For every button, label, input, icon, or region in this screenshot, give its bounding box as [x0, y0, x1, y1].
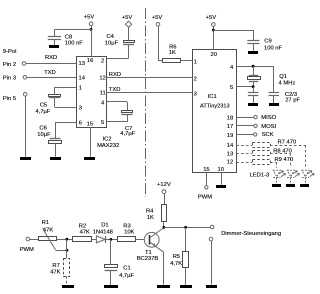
svg-text:PWM: PWM [198, 195, 212, 201]
ground R5 [180, 285, 192, 288]
wire IC2 pin1 to C5 [55, 87, 77, 89]
wire PWM to R1 [30, 239, 39, 241]
resistor R7 shunt (dashed) [64, 259, 70, 277]
svg-text:MISO: MISO [261, 115, 276, 121]
svg-text:R4: R4 [146, 208, 154, 214]
ground IC1 pin10 [216, 185, 226, 188]
wire R5 to ground [185, 268, 187, 285]
svg-text:19: 19 [227, 133, 233, 139]
wire R5 branch [185, 227, 187, 251]
svg-text:16: 16 [87, 58, 93, 64]
svg-text:20: 20 [211, 52, 217, 58]
svg-text:RXD: RXD [45, 55, 57, 61]
wire IC2 pin15 to ground [90, 128, 92, 157]
resistor R6 [163, 59, 181, 63]
wire R9 to LED1 dashed [270, 162, 277, 164]
wire Pin3 to IC2 pin14 TXD [27, 77, 77, 79]
wire R8 to LED2 dashed [270, 153, 291, 155]
ground C6 [50, 157, 61, 160]
svg-text:IC1: IC1 [208, 94, 217, 100]
wire collector node to output [163, 226, 166, 229]
svg-text:+5V: +5V [206, 15, 217, 21]
svg-text:10: 10 [218, 167, 224, 173]
node MISO [236, 117, 254, 119]
wire RXD IC2 pin12 to IC1 pin2 [106, 77, 192, 79]
node +12V [162, 190, 166, 194]
wire R1 wiper arrow [44, 230, 56, 250]
svg-text:1: 1 [194, 59, 197, 65]
svg-text:C8: C8 [65, 34, 72, 40]
svg-text:17: 17 [227, 124, 233, 130]
capacitor C5 [49, 95, 61, 97]
capacitor C6 [50, 138, 61, 140]
wire Pin5 to ground [25, 96, 27, 157]
op-amp IC2 MAX232 body [77, 57, 107, 128]
LED LED3 [302, 170, 309, 177]
capacitor C2 [253, 87, 255, 93]
svg-text:R7 470: R7 470 [278, 140, 297, 146]
svg-text:C4: C4 [107, 34, 115, 40]
svg-text:4,7µF: 4,7µF [36, 109, 51, 115]
capacitor C8 [54, 29, 56, 36]
ground R7 [62, 285, 74, 288]
ground C3 [269, 103, 279, 106]
wire IC1 pin14 dashed [236, 145, 252, 147]
capacitor C7 [122, 111, 133, 113]
svg-text:R9 470: R9 470 [275, 157, 294, 163]
wire R2 to D1 [91, 239, 96, 241]
wire divider dash-dot line [145, 8, 147, 197]
wire Dimmer output 2 to ground [211, 241, 213, 285]
resistor R4 [162, 205, 167, 222]
svg-text:11: 11 [100, 90, 106, 96]
svg-text:47K: 47K [80, 229, 90, 235]
node +5V supply 2 (diamond) [125, 21, 131, 27]
LED LED2 [287, 170, 294, 177]
node +5V supply 1 [89, 22, 93, 26]
node MOSI [236, 125, 254, 127]
node PWM at IC1 pin15 [206, 172, 208, 185]
svg-text:4,7K: 4,7K [170, 261, 182, 267]
LED LED1 [273, 170, 280, 177]
svg-text:18: 18 [227, 116, 233, 122]
wire +12V to R4 [164, 194, 166, 205]
svg-text:MAX232: MAX232 [97, 143, 119, 149]
svg-text:12: 12 [227, 159, 233, 165]
transistor T1 BC237B [144, 232, 159, 247]
svg-text:ATTiny2313: ATTiny2313 [200, 104, 230, 110]
node +5V supply 3 [156, 23, 160, 27]
wire +5V1 down to IC2 pin16 [91, 29, 93, 56]
svg-text:14: 14 [79, 76, 86, 82]
svg-text:6: 6 [79, 120, 82, 126]
svg-text:9-Pol: 9-Pol [3, 49, 17, 55]
capacitor C1 [110, 239, 112, 264]
svg-text:C6: C6 [39, 125, 46, 131]
svg-text:R1: R1 [42, 220, 49, 226]
svg-text:Dimmer-Steuereingang: Dimmer-Steuereingang [221, 231, 281, 237]
capacitor C3 [273, 66, 275, 92]
capacitor C4 [128, 26, 130, 40]
svg-text:3: 3 [194, 92, 197, 98]
wire IC1 pin5 to crystal [236, 86, 253, 88]
node Dimmer output 2 [209, 237, 213, 241]
wire Pin2 to IC2 pin13 RXD [26, 63, 77, 65]
wire +5V3 down to R6 [158, 26, 160, 60]
svg-text:+12V: +12V [157, 182, 171, 188]
crystal Q1 [249, 75, 258, 77]
svg-text:10K: 10K [124, 229, 134, 235]
svg-text:10µF: 10µF [105, 41, 119, 47]
svg-text:+5V: +5V [122, 15, 133, 21]
svg-text:C9: C9 [264, 39, 271, 45]
diode D1 [96, 236, 105, 243]
wire D1 to R3 [105, 239, 117, 241]
svg-text:Q1: Q1 [279, 74, 287, 80]
ground Dimmer output 2 [206, 285, 217, 288]
resistor R1 potentiometer [39, 237, 57, 241]
svg-text:TXD: TXD [109, 87, 121, 93]
svg-text:15: 15 [203, 167, 209, 173]
wire IC1 pin13 dashed [236, 153, 252, 155]
svg-text:13: 13 [79, 61, 85, 67]
wire emitter to ground [163, 252, 165, 284]
svg-text:IC2: IC2 [102, 137, 111, 143]
resistor R2 [73, 237, 92, 242]
svg-text:3: 3 [79, 105, 82, 111]
resistor R5 [183, 252, 189, 268]
svg-text:+5V: +5V [152, 15, 163, 21]
node +5V supply 4 [212, 23, 216, 27]
svg-text:4,7µF: 4,7µF [120, 131, 135, 137]
wire TXD IC2 pin11 to IC1 pin3 [106, 92, 192, 94]
node SCK [236, 134, 253, 136]
wire R3 to base [135, 239, 144, 241]
svg-text:LED1-3: LED1-3 [250, 173, 270, 179]
svg-text:1N4148: 1N4148 [93, 229, 113, 235]
svg-text:12: 12 [99, 76, 105, 82]
wire IC1 pin12 dashed [236, 162, 252, 164]
svg-text:Pin 3: Pin 3 [3, 75, 16, 81]
svg-text:RXD: RXD [109, 72, 121, 78]
node Dimmer output 1 [210, 225, 214, 229]
svg-text:+5V: +5V [84, 14, 95, 20]
wire IC2 pin5 [106, 121, 127, 123]
svg-text:47K: 47K [50, 270, 60, 276]
wire R1 to R2 [57, 239, 73, 241]
resistor R3 [118, 237, 136, 242]
svg-text:D1: D1 [101, 222, 108, 228]
wire +5V1 to C8 rail [91, 26, 93, 30]
svg-text:1K: 1K [169, 50, 176, 56]
wire +5V4 down to IC1 pin20 [213, 26, 215, 49]
svg-text:10µF: 10µF [37, 132, 51, 138]
svg-text:13: 13 [227, 151, 233, 157]
svg-text:1K: 1K [147, 215, 154, 221]
svg-text:SCK: SCK [262, 132, 274, 138]
resistor R9 (dashed) [253, 160, 271, 165]
svg-text:27 pF: 27 pF [285, 98, 300, 104]
ground C2 [248, 103, 258, 106]
capacitor C9 [247, 40, 259, 42]
svg-text:C5: C5 [40, 102, 47, 108]
wire +5V4 branch to C9 [213, 30, 253, 32]
svg-text:BC237B: BC237B [137, 256, 159, 262]
svg-text:5: 5 [230, 85, 233, 91]
wire C4 to IC2 pin2 [106, 58, 128, 60]
resistor R7 (dashed) [253, 143, 271, 148]
wire IC1 pin4 to crystal [236, 66, 273, 68]
svg-text:R5: R5 [173, 254, 180, 260]
svg-text:PWM: PWM [20, 247, 34, 253]
ground LED1 [272, 184, 281, 187]
wire IC2 pin4 to C7 [106, 101, 127, 103]
svg-text:15: 15 [87, 121, 93, 127]
svg-text:R7: R7 [52, 263, 59, 269]
ground Pin5 [20, 157, 31, 160]
ground IC2 pin15 [84, 157, 95, 160]
svg-text:T1: T1 [145, 250, 152, 256]
svg-text:Pin 2: Pin 2 [3, 62, 16, 68]
resistor R8 (dashed) [253, 151, 271, 156]
ground LED2 [286, 184, 295, 187]
svg-text:5: 5 [101, 120, 104, 126]
svg-text:1: 1 [79, 85, 82, 91]
svg-text:4 MHz: 4 MHz [279, 80, 296, 86]
ground C1 [104, 285, 118, 288]
node PWM input [26, 237, 30, 241]
op-amp IC1 ATtiny2313 body [193, 50, 237, 173]
wire R4 to collector node [163, 221, 165, 227]
svg-text:4,7µF: 4,7µF [119, 273, 134, 279]
svg-text:MOSI: MOSI [261, 124, 276, 130]
svg-text:TXD: TXD [44, 70, 56, 76]
svg-text:100 nF: 100 nF [65, 41, 84, 47]
ground LED3 [300, 184, 309, 187]
wire R7 to LED3 dashed [270, 145, 305, 147]
svg-text:14: 14 [227, 143, 234, 149]
ground T1 emitter [157, 285, 170, 288]
svg-text:Pin 5: Pin 5 [3, 96, 16, 102]
wire IC2 pin6 to C6 [55, 122, 77, 124]
svg-text:2: 2 [194, 77, 197, 83]
svg-text:C1: C1 [123, 266, 130, 272]
svg-text:2: 2 [101, 58, 104, 64]
wire IC1 pin10 to ground [221, 172, 223, 184]
ground C8 [49, 45, 59, 48]
svg-text:100 nF: 100 nF [264, 45, 283, 51]
ground C9 [248, 51, 258, 54]
wire R6 to IC1 pin1 [181, 60, 192, 62]
